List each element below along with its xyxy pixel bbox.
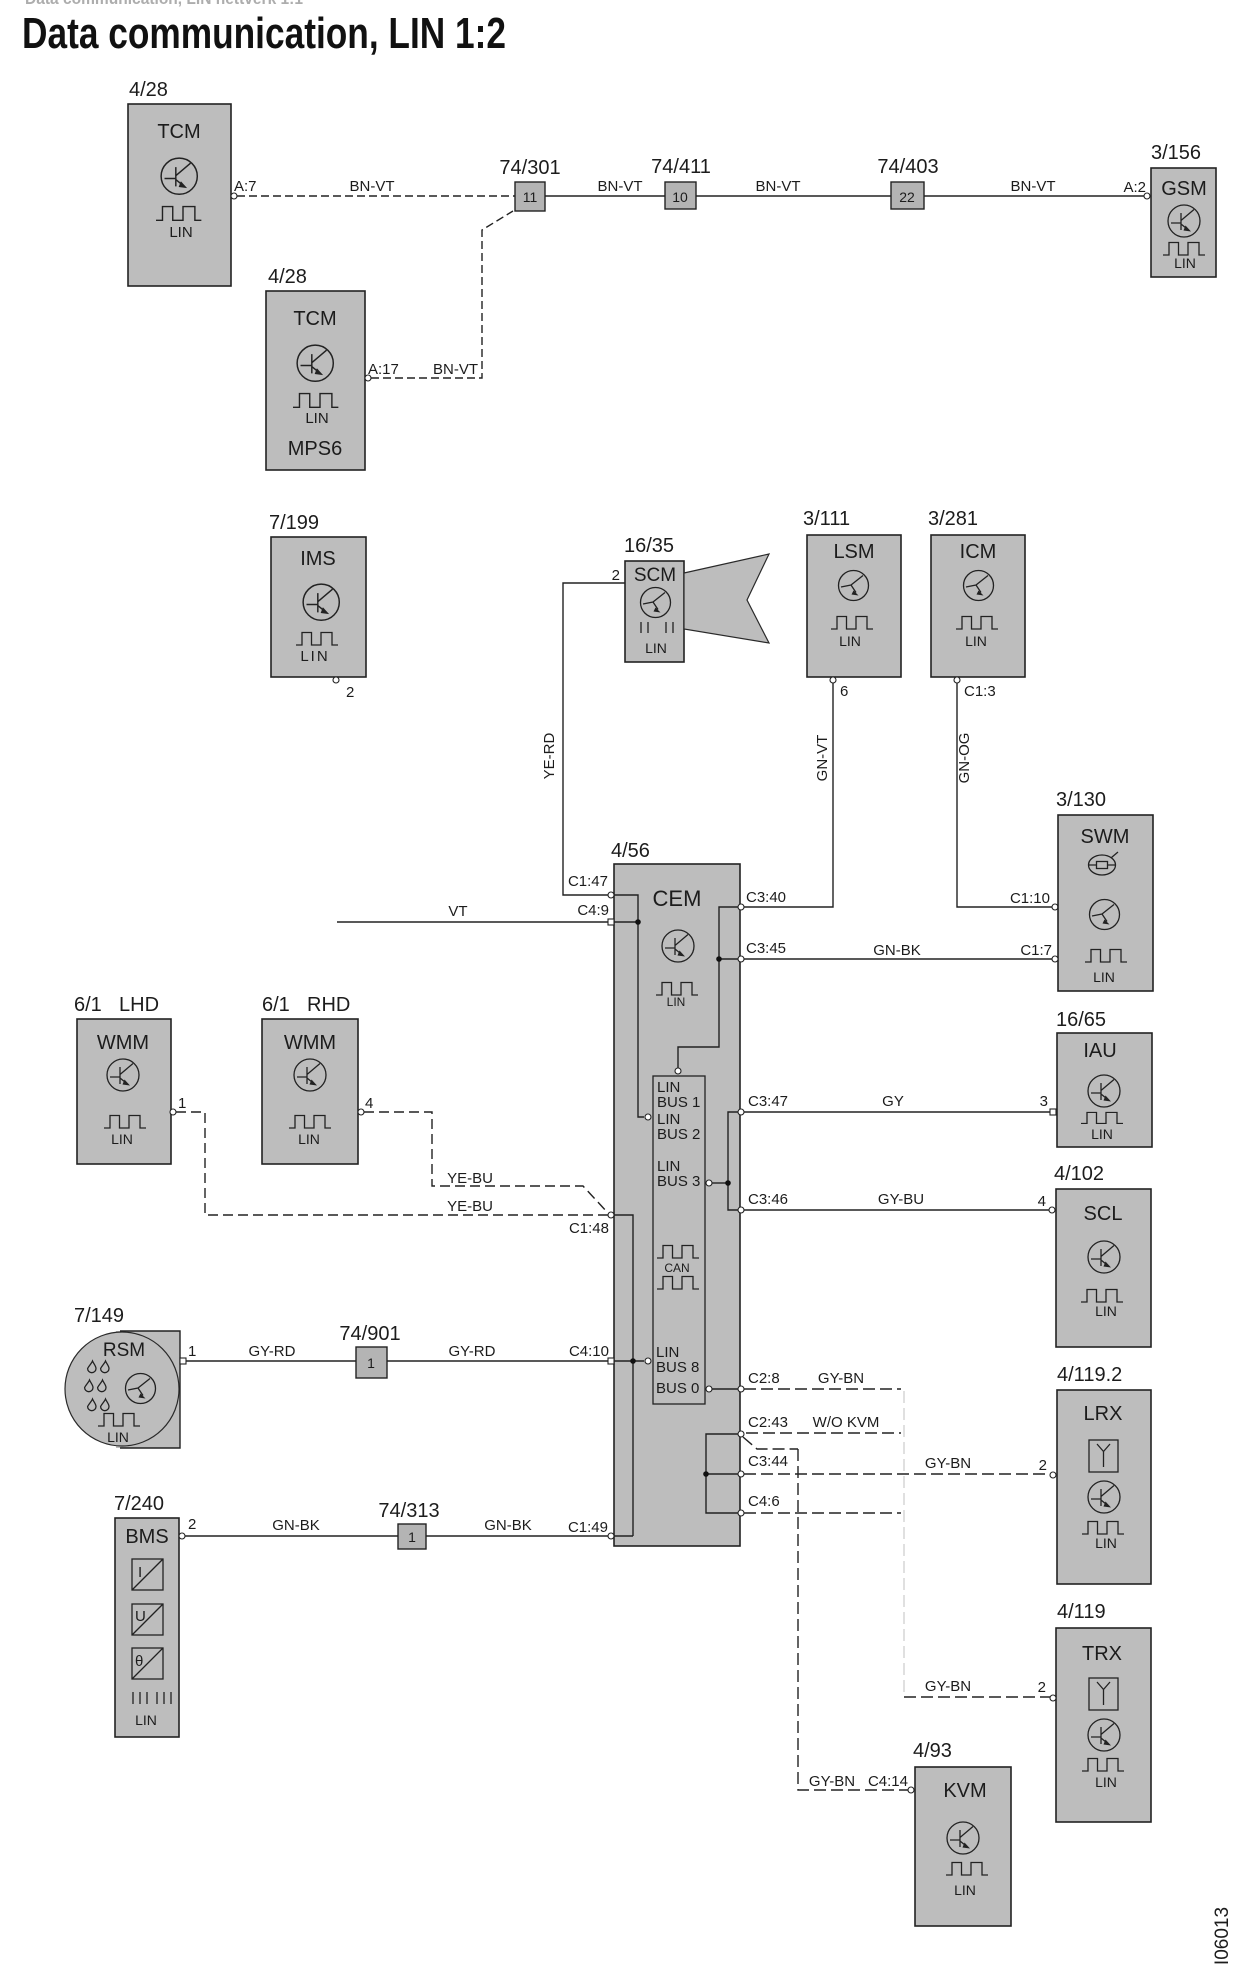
svg-text:LIN: LIN [135, 1712, 157, 1728]
wire BN-VT TCM MPS6 to 74/301 (dashed) [371, 211, 513, 378]
svg-text:BUS 8: BUS 8 [656, 1359, 699, 1376]
CEM pin C3:45 [738, 940, 786, 962]
svg-text:BUS 1: BUS 1 [657, 1094, 700, 1111]
svg-text:C4:14: C4:14 [868, 1773, 908, 1790]
svg-text:C1:47: C1:47 [568, 873, 608, 890]
wire GY-BU CEM C3:46 to SCL 4 [744, 1191, 1049, 1210]
junction 74/901 [339, 1323, 400, 1378]
svg-text:GY-BU: GY-BU [878, 1191, 924, 1208]
svg-text:C4:10: C4:10 [569, 1343, 609, 1360]
svg-text:C1:10: C1:10 [1010, 890, 1050, 907]
pin 1 of RSM [180, 1343, 196, 1364]
svg-text:C4:9: C4:9 [577, 902, 609, 919]
CEM pin C4:9 [577, 902, 614, 925]
svg-text:4/119.2: 4/119.2 [1057, 1364, 1122, 1386]
svg-text:C1:3: C1:3 [964, 683, 996, 700]
CEM pin C2:8 [738, 1370, 780, 1392]
svg-text:6/1: 6/1 [74, 994, 102, 1016]
module LSM 3/111 [803, 508, 901, 677]
CEM inner LIN bus box [653, 1076, 705, 1404]
svg-text:GY-BN: GY-BN [809, 1773, 855, 1790]
horn symbol on SCM [684, 554, 769, 643]
svg-text:θ: θ [135, 1653, 143, 1670]
pin 1 of WMM LHD [170, 1095, 186, 1115]
svg-text:WMM: WMM [97, 1032, 149, 1054]
svg-text:16/35: 16/35 [624, 535, 674, 557]
svg-text:3/111: 3/111 [803, 508, 850, 530]
svg-text:BUS 2: BUS 2 [657, 1126, 700, 1143]
svg-text:BN-VT: BN-VT [598, 178, 643, 195]
CEM internal wire C3:40/C3:45 to LIN BUS 1 [675, 907, 738, 1074]
svg-text:4: 4 [1038, 1193, 1046, 1210]
wire GN-OG ICM to SWM C1:10 [956, 683, 1058, 910]
module TRX 4/119 [1056, 1601, 1151, 1822]
svg-text:7/240: 7/240 [114, 1493, 164, 1515]
svg-text:YE-BU: YE-BU [447, 1198, 493, 1215]
module SWM 3/130 [1056, 789, 1153, 991]
svg-text:SCM: SCM [634, 565, 676, 586]
wire GN-BK 74/313 to CEM C1:49 [426, 1517, 608, 1536]
module ICM 3/281 [928, 508, 1025, 677]
svg-text:LIN: LIN [298, 1131, 320, 1147]
wire GY-BN C4:6 dashed stub [744, 1512, 901, 1514]
svg-text:4/28: 4/28 [129, 79, 168, 101]
wire GN-BK CEM C3:45 to SWM C1:7 [744, 942, 1052, 959]
svg-text:A:17: A:17 [368, 361, 399, 378]
junction 74/411 [651, 156, 711, 209]
svg-text:2: 2 [1039, 1457, 1047, 1474]
CEM pin C1:47 [568, 873, 614, 898]
CEM internal wire C1:48/C4:10/C1:49 to LIN BUS 8 [614, 1215, 651, 1536]
svg-text:C1:7: C1:7 [1020, 942, 1052, 959]
svg-text:IAU: IAU [1083, 1040, 1116, 1062]
junction 74/313 [378, 1500, 439, 1549]
svg-text:GY: GY [882, 1093, 904, 1110]
svg-text:11: 11 [523, 189, 538, 205]
svg-text:GY-RD: GY-RD [249, 1343, 296, 1360]
CEM pin C4:10 [569, 1343, 614, 1364]
svg-text:2: 2 [188, 1516, 196, 1533]
svg-text:LIN: LIN [1091, 1126, 1113, 1142]
svg-text:LIN: LIN [965, 633, 987, 649]
svg-text:10: 10 [672, 189, 688, 205]
svg-text:GSM: GSM [1161, 178, 1207, 200]
CEM pin C4:6 [738, 1493, 780, 1516]
svg-text:GN-BK: GN-BK [873, 942, 921, 959]
module SCL 4/102 [1054, 1163, 1151, 1347]
svg-text:LRX: LRX [1084, 1403, 1123, 1425]
svg-text:LIN: LIN [107, 1429, 129, 1445]
module SCM 16/35 [624, 535, 684, 662]
svg-text:I06013: I06013 [1212, 1907, 1233, 1965]
wire GY-BN to TRX 2 (dashed) [904, 1678, 1050, 1697]
svg-text:BN-VT: BN-VT [350, 178, 395, 195]
svg-text:3/130: 3/130 [1056, 789, 1106, 811]
svg-text:16/65: 16/65 [1056, 1009, 1106, 1031]
module GSM 3/156 [1151, 142, 1216, 277]
svg-text:2: 2 [612, 567, 620, 584]
module IMS 7/199 [269, 512, 366, 677]
wire BN-VT 74/301 to 74/411 [545, 178, 665, 196]
svg-text:A:7: A:7 [234, 178, 257, 195]
svg-text:LIN: LIN [169, 224, 192, 241]
svg-text:6/1: 6/1 [262, 994, 290, 1016]
svg-text:C2:43: C2:43 [748, 1414, 788, 1431]
svg-text:LIN: LIN [839, 633, 861, 649]
svg-text:YE-RD: YE-RD [541, 732, 558, 779]
wire GN-BK BMS to 74/313 [185, 1517, 398, 1536]
svg-text:SWM: SWM [1081, 826, 1130, 848]
svg-text:4/119: 4/119 [1057, 1601, 1106, 1623]
module KVM 4/93 [913, 1740, 1011, 1926]
CEM pin C3:44 [738, 1453, 788, 1477]
svg-text:C3:46: C3:46 [748, 1191, 788, 1208]
svg-text:TCM: TCM [157, 121, 200, 143]
svg-text:C2:8: C2:8 [748, 1370, 780, 1387]
svg-text:LIN: LIN [300, 648, 329, 665]
svg-text:GY-BN: GY-BN [925, 1455, 971, 1472]
wire YE-RD SCM to CEM C1:47 [541, 583, 625, 895]
svg-text:Data communication, LIN nettve: Data communication, LIN nettverk 1:1 [25, 0, 303, 8]
pin A:17 of TCM MPS6 [365, 361, 399, 381]
svg-text:C4:6: C4:6 [748, 1493, 780, 1510]
svg-text:U: U [135, 1608, 146, 1625]
svg-text:ICM: ICM [960, 541, 997, 563]
wire W/O KVM from C2:43 (dashed stub) [746, 1414, 901, 1433]
wire GY-RD RSM to 74/901 [186, 1343, 356, 1361]
svg-text:GY-RD: GY-RD [449, 1343, 496, 1360]
svg-text:4/102: 4/102 [1054, 1163, 1104, 1185]
svg-text:C3:40: C3:40 [746, 889, 786, 906]
module TCM MPS6 4/28 [266, 266, 365, 470]
svg-text:W/O KVM: W/O KVM [813, 1414, 880, 1431]
CEM pin C3:46 [738, 1191, 788, 1213]
pin 4 of WMM RHD [358, 1095, 373, 1115]
svg-text:LIN: LIN [305, 410, 328, 427]
svg-text:2: 2 [346, 684, 354, 701]
svg-text:6: 6 [840, 683, 848, 700]
wire BN-VT 74/403 to GSM A:2 [924, 178, 1150, 199]
svg-text:GN-BK: GN-BK [272, 1517, 320, 1534]
CEM pin C3:47 [738, 1093, 788, 1115]
pin 3 of IAU [1040, 1093, 1056, 1115]
CEM internal wire C1:47/C4:9 to LIN BUS 2 [614, 895, 651, 1120]
wire YE-BU WMM RHD to CEM C1:48 (dashed) [364, 1112, 608, 1213]
CEM internal bracket C2:43/C3:44/C4:6 [703, 1434, 738, 1513]
CEM internal wire LIN BUS 3 to C3:47/C3:46 [706, 1112, 738, 1210]
svg-text:BN-VT: BN-VT [1011, 178, 1056, 195]
svg-text:1: 1 [408, 1529, 416, 1545]
svg-text:WMM: WMM [284, 1032, 336, 1054]
svg-text:7/199: 7/199 [269, 512, 319, 534]
svg-text:LHD: LHD [119, 994, 159, 1016]
wire GY-BN from C2:8 (dashed stub) [744, 1370, 901, 1389]
svg-text:LIN: LIN [1095, 1774, 1117, 1790]
svg-text:LIN: LIN [1095, 1535, 1117, 1551]
wire VT to CEM C4:9 [337, 903, 608, 922]
svg-text:74/411: 74/411 [651, 156, 711, 178]
svg-text:LIN: LIN [667, 995, 686, 1009]
pin C4:14 of KVM [868, 1773, 914, 1793]
faint vertical link to TRX [903, 1391, 905, 1697]
svg-text:CEM: CEM [653, 886, 702, 911]
svg-text:LIN: LIN [645, 640, 667, 656]
svg-text:SCL: SCL [1084, 1203, 1123, 1225]
svg-text:2: 2 [1038, 1679, 1046, 1696]
svg-text:C1:49: C1:49 [568, 1519, 608, 1536]
svg-text:C3:45: C3:45 [746, 940, 786, 957]
pin C1:7 of SWM [1020, 942, 1058, 962]
svg-text:1: 1 [367, 1355, 375, 1371]
module RSM 7/149 [65, 1305, 180, 1448]
svg-text:BMS: BMS [125, 1526, 168, 1548]
svg-text:3/281: 3/281 [928, 508, 978, 530]
svg-text:4: 4 [365, 1095, 373, 1112]
svg-text:1: 1 [178, 1095, 186, 1112]
svg-text:YE-BU: YE-BU [447, 1170, 493, 1187]
svg-text:BN-VT: BN-VT [433, 361, 478, 378]
svg-text:7/149: 7/149 [74, 1305, 124, 1327]
module IAU 16/65 [1056, 1009, 1152, 1147]
svg-text:4/93: 4/93 [913, 1740, 952, 1762]
pin 2 of TRX [1038, 1679, 1056, 1701]
svg-text:RHD: RHD [307, 994, 350, 1016]
svg-text:KVM: KVM [943, 1780, 986, 1802]
svg-text:LIN: LIN [1095, 1303, 1117, 1319]
pin C1:3 of ICM [954, 677, 996, 700]
svg-text:GN-VT: GN-VT [814, 735, 831, 782]
svg-text:LIN: LIN [1174, 255, 1196, 271]
pin 6 of LSM [830, 677, 848, 700]
svg-text:C1:48: C1:48 [569, 1220, 609, 1237]
svg-text:TCM: TCM [293, 308, 336, 330]
svg-text:BUS 3: BUS 3 [657, 1173, 700, 1190]
module CEM 4/56 [611, 840, 740, 1546]
svg-text:1: 1 [188, 1343, 196, 1360]
svg-text:BN-VT: BN-VT [756, 178, 801, 195]
module TCM 4/28 (top left) [128, 79, 231, 286]
svg-text:4/56: 4/56 [611, 840, 650, 862]
svg-text:74/313: 74/313 [378, 1500, 439, 1522]
pin 2 of IMS [333, 677, 354, 701]
svg-text:Data communication, LIN 1:2: Data communication, LIN 1:2 [22, 9, 506, 58]
svg-text:22: 22 [899, 189, 915, 205]
svg-text:GY-BN: GY-BN [818, 1370, 864, 1387]
svg-text:GN-OG: GN-OG [956, 733, 973, 784]
svg-text:BUS 0: BUS 0 [656, 1380, 699, 1397]
svg-text:74/403: 74/403 [877, 156, 938, 178]
svg-text:C3:44: C3:44 [748, 1453, 788, 1470]
CEM internal wire BUS 0 to C2:8 [706, 1386, 738, 1392]
svg-text:RSM: RSM [103, 1340, 145, 1361]
wire GY-RD 74/901 to CEM C4:10 [387, 1343, 608, 1361]
wire GY CEM C3:47 to IAU 3 [744, 1093, 1050, 1112]
svg-text:74/301: 74/301 [499, 157, 560, 179]
svg-text:GY-BN: GY-BN [925, 1678, 971, 1695]
svg-text:C3:47: C3:47 [748, 1093, 788, 1110]
CEM pin C1:49 [568, 1519, 614, 1539]
svg-text:CAN: CAN [664, 1261, 689, 1275]
svg-text:3/156: 3/156 [1151, 142, 1201, 164]
svg-text:LSM: LSM [833, 541, 874, 563]
svg-text:MPS6: MPS6 [288, 438, 342, 460]
junction 74/301 [499, 157, 560, 211]
CEM pin C2:43 [738, 1414, 788, 1437]
wire BN-VT TCM A:7 to 74/301 (dashed) [237, 178, 515, 196]
pin 2 of LRX [1039, 1457, 1056, 1478]
wire GY-BN CEM C3:44 to LRX 2 (dashed) [744, 1455, 1050, 1474]
svg-text:IMS: IMS [300, 548, 336, 570]
svg-text:LIN: LIN [1093, 969, 1115, 985]
svg-text:A:2: A:2 [1123, 179, 1146, 196]
wire GY-BN CEM C2:43 to KVM (dashed) [743, 1437, 908, 1790]
CEM pin C1:48 [569, 1212, 614, 1237]
svg-text:74/901: 74/901 [339, 1323, 400, 1345]
svg-text:LIN: LIN [111, 1131, 133, 1147]
svg-text:LIN: LIN [954, 1882, 976, 1898]
svg-text:3: 3 [1040, 1093, 1048, 1110]
pin A:7 of TCM [231, 178, 257, 199]
svg-text:4/28: 4/28 [268, 266, 307, 288]
svg-text:I: I [138, 1564, 142, 1581]
pin 4 of SCL [1038, 1193, 1055, 1213]
wire GN-VT LSM to CEM C3:40 [744, 683, 833, 907]
module LRX 4/119.2 [1057, 1364, 1151, 1584]
module BMS 7/240 [114, 1493, 179, 1737]
svg-text:TRX: TRX [1082, 1643, 1122, 1665]
svg-text:VT: VT [448, 903, 467, 920]
svg-text:GN-BK: GN-BK [484, 1517, 532, 1534]
CEM pin C3:40 [738, 889, 786, 910]
module WMM 6/1 RHD [262, 994, 358, 1164]
wire BN-VT 74/411 to 74/403 [696, 178, 891, 196]
wire YE-BU WMM LHD to CEM C1:48 (dashed) [176, 1112, 608, 1215]
module WMM 6/1 LHD [74, 994, 171, 1164]
pin 2 of BMS [179, 1516, 196, 1539]
junction 74/403 [877, 156, 938, 209]
